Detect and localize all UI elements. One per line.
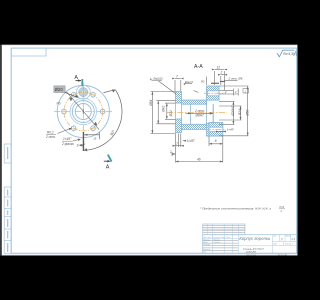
svg-text:2 фаски: 2 фаски	[61, 142, 74, 146]
svg-text:Ø24: Ø24	[238, 109, 242, 116]
svg-text:1:1: 1:1	[291, 237, 295, 241]
svg-text:А: А	[106, 165, 110, 171]
svg-text:Копировал: Копировал	[247, 255, 256, 257]
svg-text:2: 2	[220, 71, 223, 75]
svg-text:Ø84: Ø84	[149, 100, 153, 107]
svg-text:Т.контр.: Т.контр.	[203, 244, 210, 246]
svg-text:Формат А2: Формат А2	[278, 254, 288, 257]
svg-text:1×45°: 1×45°	[63, 137, 72, 141]
svg-text:Ø20: Ø20	[55, 87, 64, 92]
svg-text:R2: R2	[201, 80, 205, 84]
svg-text:Лит.: Лит.	[273, 236, 277, 238]
svg-text:Ø8H7: Ø8H7	[195, 114, 205, 118]
svg-text:1050-88: 1050-88	[246, 250, 257, 254]
svg-text:Ø42: Ø42	[162, 106, 166, 113]
svg-text:Лист: Лист	[273, 244, 277, 246]
svg-text:8: 8	[215, 139, 217, 143]
svg-text:7: 7	[176, 142, 178, 146]
svg-text:Ra0,63: Ra0,63	[154, 76, 163, 80]
svg-text:7: 7	[176, 74, 178, 78]
svg-text:Масшт.: Масшт.	[286, 236, 292, 238]
svg-text:2 отв.: 2 отв.	[194, 109, 205, 113]
svg-text:Утв.: Утв.	[203, 251, 207, 253]
svg-text:2 отв.: 2 отв.	[45, 135, 56, 139]
svg-text:А-А: А-А	[194, 64, 203, 70]
svg-text:Изм Лист № докум. Подп. Дата: Изм Лист № докум. Подп. Дата	[203, 236, 231, 239]
svg-text:1×45°: 1×45°	[227, 128, 235, 132]
svg-text:Ra1,6: Ra1,6	[186, 80, 194, 84]
svg-text:12: 12	[217, 65, 221, 69]
svg-text:Ø50: Ø50	[245, 109, 249, 116]
svg-text:Листов 1: Листов 1	[285, 244, 293, 246]
svg-text:1×45°: 1×45°	[186, 139, 195, 143]
svg-text:Петров: Петров	[214, 242, 220, 244]
svg-text:IT14: IT14	[279, 205, 285, 209]
svg-text:2 отв. Ø6: 2 отв. Ø6	[228, 77, 243, 81]
svg-text:46: 46	[197, 157, 201, 161]
svg-text:15: 15	[93, 136, 97, 140]
svg-text:* Предельные отклонения размер: * Предельные отклонения размеров: H14, h…	[200, 207, 271, 211]
svg-text:Ø20H7: Ø20H7	[231, 105, 235, 116]
svg-text:Корпус горелки: Корпус горелки	[239, 236, 271, 241]
svg-text:1: 1	[170, 150, 172, 154]
svg-text:А: А	[74, 75, 78, 81]
svg-text:Ø22: Ø22	[169, 110, 173, 117]
svg-text:R6: R6	[57, 102, 61, 106]
